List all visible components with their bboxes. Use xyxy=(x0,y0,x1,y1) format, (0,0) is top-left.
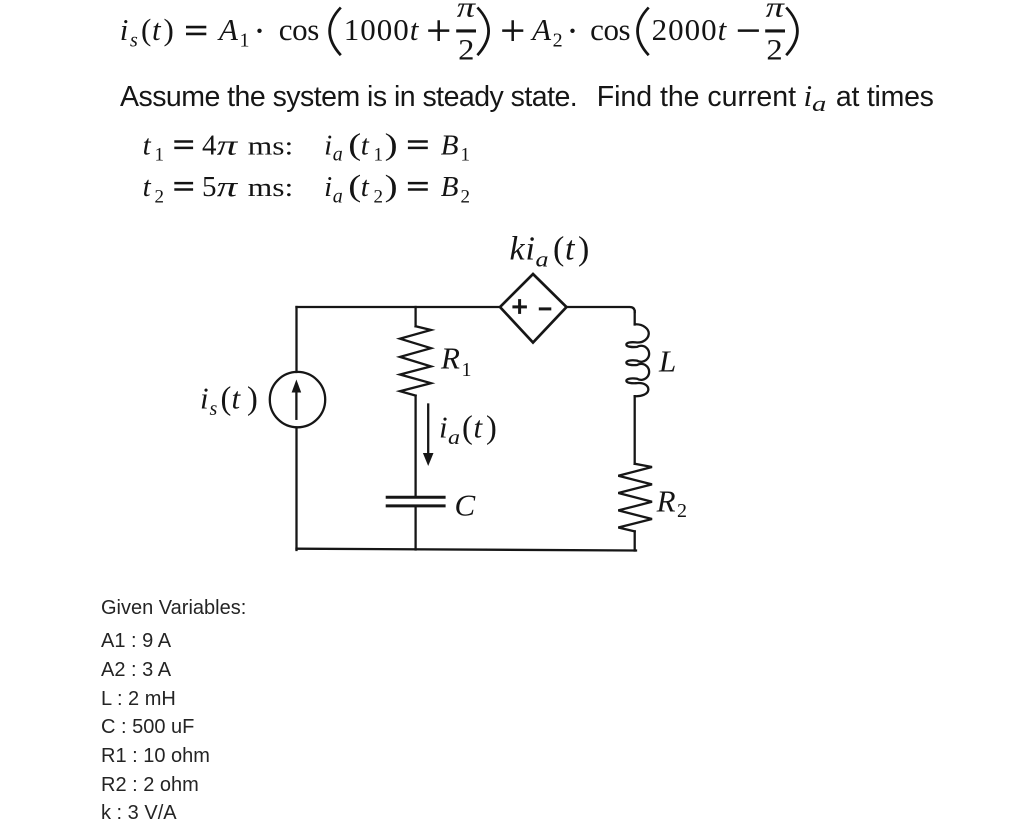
svg-text:L: L xyxy=(658,344,676,379)
svg-text:a: a xyxy=(333,185,343,207)
svg-text:i: i xyxy=(526,231,535,268)
svg-text:2: 2 xyxy=(374,186,384,207)
svg-text:(: ( xyxy=(141,12,151,47)
svg-text:(: ( xyxy=(348,168,361,203)
svg-text:): ) xyxy=(486,410,497,446)
svg-text:): ) xyxy=(247,381,258,417)
svg-text:π: π xyxy=(457,0,477,24)
svg-text:R: R xyxy=(656,484,676,519)
svg-text:2: 2 xyxy=(458,34,474,67)
svg-text:t: t xyxy=(474,410,484,445)
svg-text:i: i xyxy=(324,171,332,203)
svg-text:ms:: ms: xyxy=(248,131,293,160)
svg-text:a: a xyxy=(536,247,549,272)
svg-text:s: s xyxy=(210,398,218,420)
svg-text:t: t xyxy=(361,171,370,203)
svg-text:t: t xyxy=(361,129,370,161)
svg-text:): ) xyxy=(385,126,398,161)
svg-text:2: 2 xyxy=(461,186,471,207)
svg-text:t: t xyxy=(565,231,576,268)
svg-text:π: π xyxy=(766,0,786,24)
svg-text:(: ( xyxy=(348,126,361,161)
svg-text:1: 1 xyxy=(461,145,471,166)
svg-text:B: B xyxy=(441,129,459,161)
svg-text:): ) xyxy=(164,12,174,47)
svg-text:A: A xyxy=(530,12,552,47)
svg-text:B: B xyxy=(441,171,459,203)
svg-text:(: ( xyxy=(462,410,473,446)
svg-text:1: 1 xyxy=(155,145,165,166)
svg-text:2: 2 xyxy=(553,30,563,52)
svg-text:2000t: 2000t xyxy=(652,12,728,47)
svg-text:A: A xyxy=(217,12,239,47)
svg-text:1: 1 xyxy=(240,30,250,52)
svg-text:π: π xyxy=(217,129,239,161)
svg-text:a: a xyxy=(333,144,343,166)
svg-text:π: π xyxy=(217,171,239,203)
svg-text:i: i xyxy=(200,381,209,416)
svg-text:(: ( xyxy=(553,231,564,268)
svg-text:1: 1 xyxy=(462,359,472,381)
svg-text:i: i xyxy=(439,410,448,445)
svg-text:2: 2 xyxy=(766,34,782,67)
svg-text:k: k xyxy=(510,231,526,268)
svg-text:i: i xyxy=(324,129,332,161)
svg-text:1: 1 xyxy=(374,145,384,166)
svg-text:i: i xyxy=(120,12,129,47)
svg-text:R: R xyxy=(440,341,460,376)
svg-text:t: t xyxy=(143,129,152,161)
svg-text:cos: cos xyxy=(590,12,630,47)
svg-text:): ) xyxy=(578,231,589,268)
svg-text:ms:: ms: xyxy=(248,173,293,202)
svg-text:1000t: 1000t xyxy=(344,12,420,47)
svg-text:): ) xyxy=(385,168,398,203)
svg-text:C: C xyxy=(455,488,476,523)
svg-text:(: ( xyxy=(221,381,232,417)
svg-text:cos: cos xyxy=(279,12,319,47)
svg-text:s: s xyxy=(130,30,138,52)
svg-text:4: 4 xyxy=(202,129,217,161)
svg-text:5: 5 xyxy=(202,171,217,203)
svg-text:a: a xyxy=(448,427,460,449)
svg-text:2: 2 xyxy=(155,186,165,207)
svg-text:2: 2 xyxy=(677,500,687,522)
svg-text:t: t xyxy=(232,381,242,416)
svg-text:t: t xyxy=(143,171,152,203)
svg-text:t: t xyxy=(152,12,162,47)
